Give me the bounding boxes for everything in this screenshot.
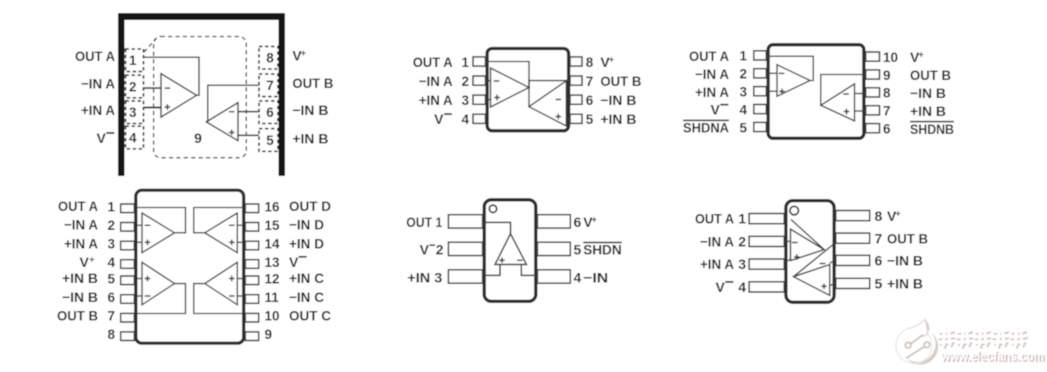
- svg-text:6: 6: [266, 105, 274, 120]
- svg-text:10: 10: [883, 50, 898, 65]
- svg-text:4: 4: [461, 112, 469, 127]
- svg-text:OUT A: OUT A: [413, 54, 453, 70]
- svg-text:9: 9: [194, 130, 202, 146]
- svg-text:8: 8: [107, 327, 115, 342]
- svg-text:+: +: [89, 254, 95, 264]
- svg-text:11: 11: [265, 290, 280, 305]
- svg-text:−IN A: −IN A: [695, 66, 729, 82]
- svg-text:+IN B: +IN B: [62, 270, 98, 286]
- svg-text:6: 6: [574, 214, 582, 230]
- svg-text:OUT A: OUT A: [689, 48, 729, 64]
- svg-text:+: +: [918, 50, 924, 60]
- svg-text:+IN B: +IN B: [600, 111, 636, 127]
- svg-text:7: 7: [875, 231, 883, 247]
- svg-text:3: 3: [129, 105, 137, 120]
- svg-text:14: 14: [265, 237, 281, 252]
- svg-text:4: 4: [107, 255, 115, 270]
- svg-text:12: 12: [265, 271, 280, 286]
- svg-text:V: V: [434, 111, 444, 127]
- svg-text:OUT A: OUT A: [695, 211, 734, 227]
- svg-text:+IN A: +IN A: [64, 235, 98, 251]
- svg-text:13: 13: [265, 255, 281, 270]
- svg-text:1: 1: [738, 211, 746, 227]
- svg-text:OUT B: OUT B: [910, 67, 951, 83]
- svg-text:−IN D: −IN D: [289, 217, 324, 233]
- svg-text:6: 6: [107, 290, 115, 305]
- svg-text:15: 15: [265, 218, 281, 233]
- svg-text:8: 8: [266, 51, 274, 66]
- svg-text:OUT 1: OUT 1: [406, 214, 442, 230]
- svg-text:1: 1: [739, 49, 747, 64]
- svg-text:OUT C: OUT C: [289, 308, 331, 324]
- svg-text:V: V: [96, 130, 106, 146]
- svg-text:+IN 3: +IN 3: [407, 269, 442, 285]
- svg-text:−IN B: −IN B: [292, 102, 328, 118]
- svg-text:−IN B: −IN B: [62, 289, 98, 305]
- svg-text:8: 8: [875, 208, 883, 224]
- svg-text:3: 3: [461, 93, 469, 108]
- svg-text:V: V: [710, 102, 720, 118]
- svg-text:+IN A: +IN A: [700, 256, 734, 272]
- svg-text:−IN A: −IN A: [419, 73, 453, 89]
- svg-text:4: 4: [129, 130, 137, 145]
- svg-text:−IN B: −IN B: [600, 92, 636, 108]
- svg-text:−IN A: −IN A: [700, 233, 734, 249]
- svg-text:1: 1: [129, 53, 137, 68]
- svg-text:10: 10: [265, 309, 280, 324]
- svg-text:OUT B: OUT B: [600, 73, 641, 89]
- svg-text:3: 3: [107, 237, 115, 252]
- svg-text:9: 9: [883, 68, 891, 83]
- svg-text:+: +: [592, 215, 598, 225]
- svg-text:+IN B: +IN B: [292, 131, 328, 147]
- svg-text:+IN A: +IN A: [81, 102, 115, 118]
- svg-text:5: 5: [266, 133, 274, 148]
- svg-text:5: 5: [739, 120, 747, 135]
- svg-text:7: 7: [586, 74, 594, 89]
- svg-text:−IN: −IN: [583, 269, 608, 285]
- svg-text:−IN B: −IN B: [887, 253, 923, 269]
- svg-text:8: 8: [883, 86, 891, 101]
- svg-text:OUT B: OUT B: [887, 231, 928, 247]
- svg-text:+IN B: +IN B: [910, 103, 946, 119]
- svg-text:OUT A: OUT A: [75, 48, 115, 64]
- svg-text:V: V: [715, 279, 725, 295]
- svg-text:16: 16: [265, 199, 281, 214]
- svg-text:2: 2: [738, 233, 746, 249]
- svg-text:−IN C: −IN C: [289, 289, 324, 305]
- svg-text:V: V: [79, 254, 89, 270]
- svg-text:+IN C: +IN C: [289, 270, 324, 286]
- svg-text:1: 1: [107, 199, 115, 214]
- svg-text:−IN A: −IN A: [81, 76, 115, 92]
- svg-text:4: 4: [574, 269, 582, 285]
- svg-text:1: 1: [461, 55, 469, 70]
- svg-text:3: 3: [738, 256, 746, 272]
- svg-text:5: 5: [875, 276, 883, 292]
- svg-text:+: +: [301, 48, 307, 58]
- svg-text:+IN B: +IN B: [887, 276, 923, 292]
- svg-text:7: 7: [266, 78, 274, 93]
- svg-text:5: 5: [107, 271, 115, 286]
- svg-text:4: 4: [739, 102, 747, 117]
- svg-text:7: 7: [107, 309, 115, 324]
- svg-text:6: 6: [875, 253, 883, 269]
- svg-text:−IN A: −IN A: [64, 217, 98, 233]
- svg-text:OUT B: OUT B: [292, 75, 333, 91]
- svg-text:SHDN: SHDN: [583, 242, 622, 258]
- svg-text:+IN D: +IN D: [289, 235, 324, 251]
- svg-text:2: 2: [107, 218, 115, 233]
- svg-text:OUT D: OUT D: [289, 198, 331, 214]
- svg-text:6: 6: [586, 93, 594, 108]
- svg-text:7: 7: [883, 104, 891, 119]
- svg-text:SHDNA: SHDNA: [683, 120, 729, 136]
- svg-text:−IN B: −IN B: [910, 85, 946, 101]
- svg-text:6: 6: [883, 122, 891, 137]
- svg-text:SHDNB: SHDNB: [910, 121, 954, 137]
- svg-text:2: 2: [739, 67, 747, 82]
- svg-text:V: V: [420, 242, 430, 258]
- svg-text:3: 3: [739, 85, 747, 100]
- svg-text:8: 8: [586, 55, 594, 70]
- svg-text:2: 2: [129, 79, 137, 94]
- svg-text:+IN A: +IN A: [419, 92, 453, 108]
- svg-text:2: 2: [436, 242, 444, 258]
- svg-text:OUT B: OUT B: [57, 308, 98, 324]
- svg-text:2: 2: [461, 74, 469, 89]
- svg-text:V: V: [289, 254, 299, 270]
- svg-text:+: +: [609, 54, 615, 64]
- svg-text:5: 5: [574, 242, 582, 258]
- svg-text:www.elecfans.com: www.elecfans.com: [940, 349, 1044, 364]
- svg-text:9: 9: [265, 327, 273, 342]
- svg-text:+: +: [895, 208, 901, 218]
- svg-text:4: 4: [738, 279, 746, 295]
- svg-text:5: 5: [586, 112, 594, 127]
- svg-text:+IN A: +IN A: [695, 84, 729, 100]
- svg-text:OUT A: OUT A: [58, 198, 98, 214]
